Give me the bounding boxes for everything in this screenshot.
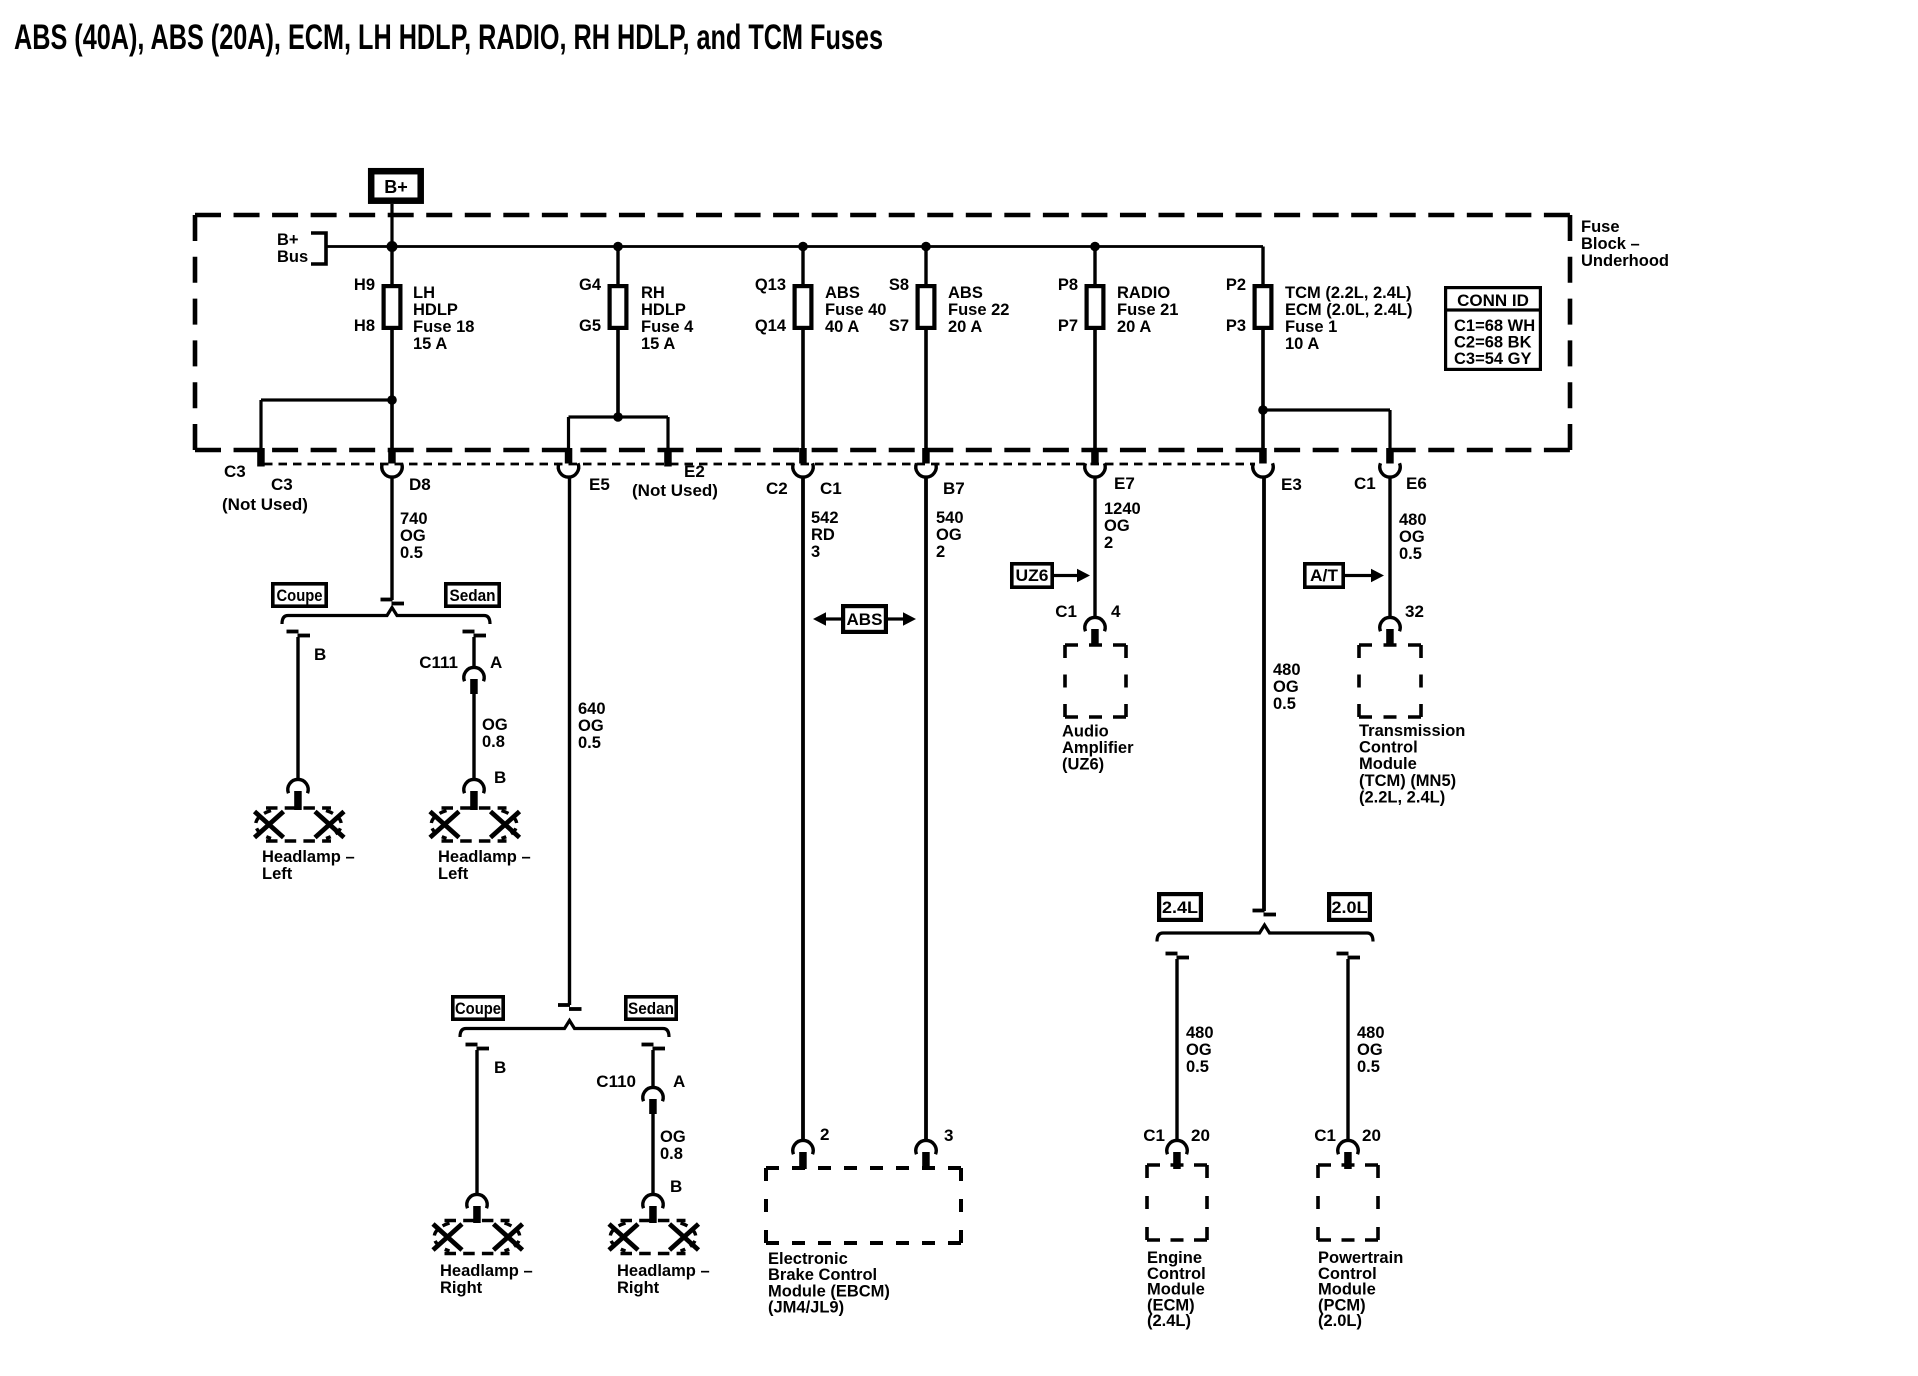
svg-text:B7: B7 [943, 479, 965, 498]
svg-text:Audio: Audio [1062, 723, 1109, 741]
svg-text:Module: Module [1359, 755, 1417, 773]
svg-text:40 A: 40 A [825, 318, 859, 336]
svg-text:ABS: ABS [825, 284, 860, 302]
svg-text:B: B [494, 1058, 506, 1077]
svg-text:Q13: Q13 [755, 276, 786, 294]
svg-text:Transmission: Transmission [1359, 722, 1465, 740]
svg-text:740: 740 [400, 510, 428, 528]
svg-text:LH: LH [413, 284, 435, 302]
svg-text:HDLP: HDLP [641, 301, 686, 319]
svg-text:Fuse 21: Fuse 21 [1117, 301, 1178, 319]
svg-text:0.5: 0.5 [1357, 1058, 1380, 1076]
svg-text:Headlamp –: Headlamp – [617, 1262, 710, 1280]
svg-text:C1=68 WH: C1=68 WH [1454, 317, 1535, 335]
svg-text:Headlamp –: Headlamp – [438, 848, 531, 866]
svg-text:E6: E6 [1406, 474, 1427, 493]
svg-text:20 A: 20 A [948, 318, 982, 336]
svg-text:Fuse 18: Fuse 18 [413, 318, 474, 336]
svg-text:2.0L: 2.0L [1332, 899, 1368, 917]
svg-text:P7: P7 [1058, 317, 1078, 335]
svg-text:ABS (40A), ABS (20A), ECM, LH: ABS (40A), ABS (20A), ECM, LH HDLP, RADI… [14, 18, 883, 57]
svg-text:CONN ID: CONN ID [1457, 291, 1529, 310]
svg-text:Amplifier: Amplifier [1062, 739, 1134, 757]
svg-text:(2.2L, 2.4L): (2.2L, 2.4L) [1359, 788, 1445, 806]
svg-text:0.5: 0.5 [578, 734, 601, 752]
svg-text:TCM (2.2L, 2.4L): TCM (2.2L, 2.4L) [1285, 284, 1412, 302]
svg-text:C1: C1 [1314, 1126, 1336, 1145]
svg-text:C111: C111 [419, 653, 458, 672]
svg-text:Bus: Bus [277, 248, 308, 266]
svg-text:4: 4 [1111, 602, 1121, 621]
svg-text:Sedan: Sedan [628, 1000, 674, 1018]
svg-text:32: 32 [1405, 602, 1424, 621]
svg-text:RADIO: RADIO [1117, 284, 1170, 302]
svg-text:E5: E5 [589, 475, 610, 494]
svg-text:Left: Left [438, 865, 469, 883]
svg-text:OG: OG [1104, 517, 1130, 535]
svg-text:3: 3 [811, 543, 820, 561]
svg-text:G5: G5 [579, 317, 601, 335]
svg-text:E7: E7 [1114, 474, 1135, 493]
svg-text:OG: OG [1186, 1041, 1212, 1059]
svg-text:10 A: 10 A [1285, 335, 1319, 353]
svg-text:2: 2 [936, 543, 945, 561]
svg-text:G4: G4 [579, 276, 602, 294]
svg-text:H9: H9 [354, 276, 375, 294]
svg-text:2: 2 [1104, 534, 1113, 552]
svg-text:Block –: Block – [1581, 235, 1640, 253]
svg-text:A/T: A/T [1310, 567, 1338, 585]
svg-text:0.8: 0.8 [660, 1145, 683, 1163]
svg-text:C2=68 BK: C2=68 BK [1454, 334, 1532, 352]
svg-text:0.5: 0.5 [1399, 545, 1422, 563]
svg-text:Coupe: Coupe [277, 587, 323, 605]
svg-text:B: B [494, 768, 506, 787]
svg-text:Left: Left [262, 865, 293, 883]
svg-text:480: 480 [1273, 661, 1301, 679]
svg-text:2: 2 [820, 1125, 829, 1144]
svg-text:2.4L: 2.4L [1162, 899, 1198, 917]
svg-text:640: 640 [578, 700, 606, 718]
svg-text:ABS: ABS [948, 284, 983, 302]
svg-text:Fuse 40: Fuse 40 [825, 301, 886, 319]
svg-text:OG: OG [936, 526, 962, 544]
svg-text:OG: OG [1399, 528, 1425, 546]
svg-text:(JM4/JL9): (JM4/JL9) [768, 1299, 844, 1317]
svg-text:H8: H8 [354, 317, 375, 335]
svg-text:480: 480 [1186, 1024, 1214, 1042]
svg-text:C110: C110 [596, 1072, 636, 1091]
svg-text:C2: C2 [766, 479, 788, 498]
svg-text:A: A [490, 653, 502, 672]
svg-text:Fuse: Fuse [1581, 218, 1620, 236]
svg-text:Right: Right [617, 1279, 660, 1297]
svg-text:(Not Used): (Not Used) [632, 481, 718, 500]
svg-text:(2.0L): (2.0L) [1318, 1312, 1362, 1330]
svg-text:RD: RD [811, 526, 835, 544]
svg-text:0.5: 0.5 [400, 544, 423, 562]
svg-text:0.8: 0.8 [482, 733, 505, 751]
svg-text:E3: E3 [1281, 475, 1302, 494]
svg-text:542: 542 [811, 509, 839, 527]
svg-text:S8: S8 [889, 276, 909, 294]
svg-text:15 A: 15 A [413, 335, 447, 353]
svg-text:OG: OG [1357, 1041, 1383, 1059]
svg-text:Fuse 1: Fuse 1 [1285, 318, 1337, 336]
svg-text:(TCM) (MN5): (TCM) (MN5) [1359, 772, 1456, 790]
svg-text:OG: OG [578, 717, 604, 735]
svg-text:Q14: Q14 [755, 317, 787, 335]
svg-text:C1: C1 [1143, 1126, 1165, 1145]
svg-text:Headlamp –: Headlamp – [440, 1262, 533, 1280]
svg-text:Sedan: Sedan [450, 587, 496, 605]
svg-text:S7: S7 [889, 317, 909, 335]
svg-text:E2: E2 [684, 462, 705, 481]
svg-text:0.5: 0.5 [1273, 695, 1296, 713]
svg-text:OG: OG [660, 1128, 686, 1146]
svg-text:RH: RH [641, 284, 665, 302]
svg-text:B: B [314, 645, 326, 664]
svg-text:0.5: 0.5 [1186, 1058, 1209, 1076]
svg-text:P2: P2 [1226, 276, 1246, 294]
svg-text:C1: C1 [820, 479, 842, 498]
svg-text:C3: C3 [224, 462, 246, 481]
svg-text:OG: OG [400, 527, 426, 545]
svg-text:UZ6: UZ6 [1016, 567, 1049, 585]
svg-text:ECM (2.0L, 2.4L): ECM (2.0L, 2.4L) [1285, 301, 1412, 319]
svg-text:Right: Right [440, 1279, 483, 1297]
svg-text:(Not Used): (Not Used) [222, 495, 308, 514]
svg-text:C3: C3 [271, 475, 293, 494]
svg-text:15 A: 15 A [641, 335, 675, 353]
svg-text:D8: D8 [409, 475, 431, 494]
svg-text:540: 540 [936, 509, 964, 527]
svg-text:480: 480 [1399, 511, 1427, 529]
svg-text:(2.4L): (2.4L) [1147, 1312, 1191, 1330]
svg-text:Coupe: Coupe [455, 1000, 501, 1018]
svg-text:(UZ6): (UZ6) [1062, 756, 1104, 774]
svg-text:480: 480 [1357, 1024, 1385, 1042]
svg-text:B: B [670, 1177, 682, 1196]
svg-text:B+: B+ [277, 231, 299, 249]
svg-text:C3=54 GY: C3=54 GY [1454, 350, 1532, 368]
svg-text:Control: Control [1359, 739, 1418, 757]
svg-text:20: 20 [1191, 1126, 1210, 1145]
svg-text:20 A: 20 A [1117, 318, 1151, 336]
svg-text:20: 20 [1362, 1126, 1381, 1145]
svg-text:ABS: ABS [847, 611, 883, 629]
svg-text:C1: C1 [1354, 474, 1376, 493]
svg-text:Fuse 4: Fuse 4 [641, 318, 694, 336]
svg-text:Headlamp –: Headlamp – [262, 848, 355, 866]
svg-text:B+: B+ [384, 177, 408, 197]
svg-text:OG: OG [482, 716, 508, 734]
svg-text:HDLP: HDLP [413, 301, 458, 319]
svg-text:P3: P3 [1226, 317, 1246, 335]
svg-text:Fuse 22: Fuse 22 [948, 301, 1009, 319]
svg-text:3: 3 [944, 1126, 953, 1145]
svg-text:P8: P8 [1058, 276, 1078, 294]
svg-text:OG: OG [1273, 678, 1299, 696]
svg-text:1240: 1240 [1104, 500, 1141, 518]
svg-text:C1: C1 [1055, 602, 1077, 621]
svg-text:A: A [673, 1072, 685, 1091]
svg-text:Underhood: Underhood [1581, 252, 1669, 270]
